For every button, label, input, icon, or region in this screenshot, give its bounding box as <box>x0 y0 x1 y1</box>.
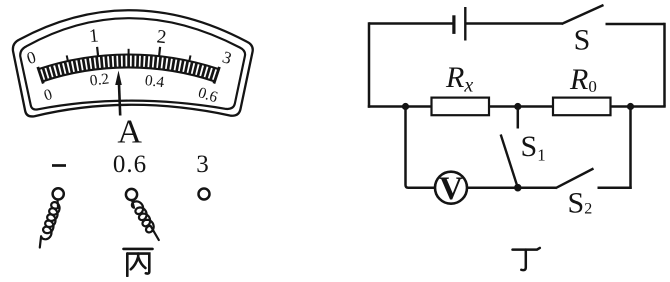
major and minor ticks above band <box>67 47 191 61</box>
coiled wire on 0.6 terminal <box>132 200 159 240</box>
terminal label minus <box>52 164 66 167</box>
wire bottom node to S2 pivot <box>518 186 556 189</box>
coiled wire on minus terminal <box>40 200 60 248</box>
terminal post (3) <box>199 189 210 200</box>
wire switch S to top-right corner <box>606 23 665 26</box>
voltmeter V <box>435 171 467 207</box>
svg-text:S: S <box>574 24 591 57</box>
wire middle node down to S1 <box>517 107 520 129</box>
wire left branch down to voltmeter <box>406 107 436 188</box>
svg-text:A: A <box>117 114 142 151</box>
caption ding (Chinese) <box>513 248 540 270</box>
svg-text:0.2: 0.2 <box>89 70 110 89</box>
node middle junction <box>514 103 521 110</box>
resistor R0 body <box>553 98 611 116</box>
terminal post (0.6) <box>126 189 137 200</box>
switch S2 blade <box>556 169 594 189</box>
ammeter frame inner outline <box>20 18 245 109</box>
wire top-left from corner to battery <box>369 22 453 25</box>
needle of ammeter <box>115 71 122 116</box>
wire row left segment <box>368 105 432 108</box>
wire voltmeter to bottom node <box>467 186 518 189</box>
ammeter frame outer outline <box>13 10 253 116</box>
scale band hatch ticks <box>38 55 220 84</box>
right vertical wire (top) <box>663 23 666 107</box>
svg-text:3: 3 <box>196 151 209 178</box>
wire battery to switch S <box>467 22 563 25</box>
switch S blade <box>562 5 604 24</box>
scale band top arc <box>39 55 219 70</box>
left vertical wire <box>368 22 371 107</box>
wire S2 to bottom-right corner <box>598 186 632 189</box>
resistor Rx body <box>432 98 490 116</box>
caption bing (Chinese) <box>124 249 153 276</box>
node right junction <box>627 103 634 110</box>
switch S1 blade <box>501 135 518 188</box>
svg-text:0.6: 0.6 <box>113 151 147 178</box>
terminal post (minus) <box>53 188 64 199</box>
right vertical wire (bottom) <box>629 107 632 189</box>
battery cell <box>454 7 465 41</box>
wire Rx to middle node <box>489 105 553 108</box>
svg-text:0.4: 0.4 <box>144 72 166 91</box>
wire R0 to right node <box>611 105 666 108</box>
node bottom junction <box>514 184 522 192</box>
node left junction <box>402 103 409 110</box>
svg-text:V: V <box>439 171 463 207</box>
scale band bottom arc <box>43 67 215 81</box>
